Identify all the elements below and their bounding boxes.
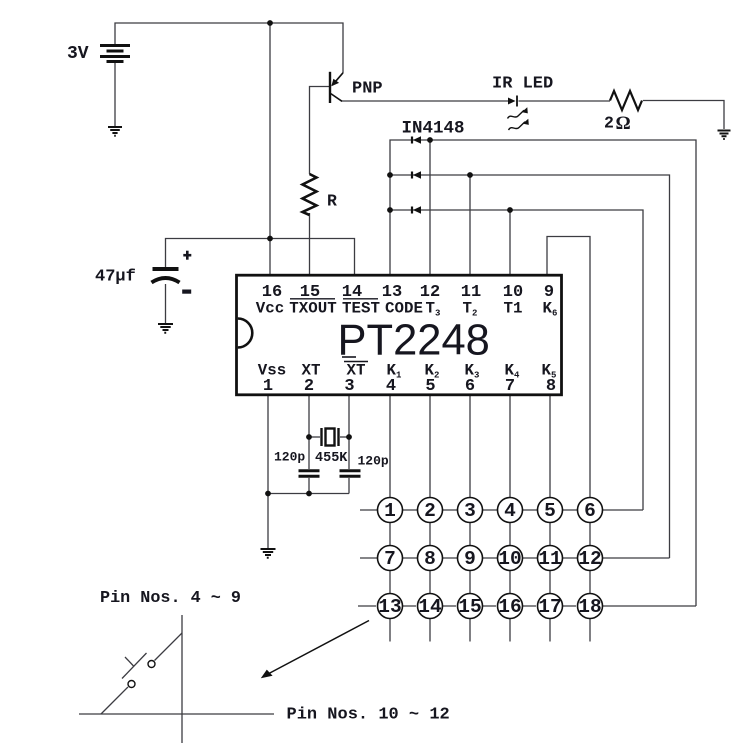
svg-text:13: 13	[378, 596, 401, 618]
svg-text:1: 1	[384, 500, 396, 522]
svg-text:6: 6	[584, 500, 596, 522]
svg-text:PT2248: PT2248	[338, 316, 490, 364]
svg-text:Vcc: Vcc	[256, 300, 284, 318]
svg-text:3V: 3V	[67, 44, 89, 64]
svg-text:2: 2	[604, 114, 614, 133]
svg-text:K6: K6	[543, 300, 558, 319]
svg-text:CODE: CODE	[385, 300, 423, 318]
svg-text:R: R	[327, 192, 337, 211]
svg-text:3: 3	[344, 377, 354, 396]
svg-text:9: 9	[464, 548, 476, 570]
svg-text:TXOUT: TXOUT	[289, 300, 337, 318]
svg-text:IR LED: IR LED	[492, 75, 553, 94]
svg-text:8: 8	[424, 548, 436, 570]
svg-text:2: 2	[424, 500, 436, 522]
svg-text:T1: T1	[504, 300, 523, 318]
svg-text:7: 7	[384, 548, 396, 570]
svg-text:6: 6	[465, 377, 475, 396]
svg-text:16: 16	[498, 596, 521, 618]
svg-text:Pin Nos. 4 ~ 9: Pin Nos. 4 ~ 9	[100, 589, 241, 608]
svg-text:5: 5	[425, 377, 435, 396]
svg-text:14: 14	[418, 596, 442, 618]
svg-text:120p: 120p	[358, 454, 389, 469]
svg-text:11: 11	[538, 548, 561, 570]
svg-text:4: 4	[504, 500, 516, 522]
svg-text:4: 4	[386, 377, 396, 396]
svg-text:PNP: PNP	[352, 80, 383, 99]
svg-text:12: 12	[578, 548, 601, 570]
svg-text:1: 1	[263, 377, 273, 396]
svg-text:3: 3	[464, 500, 476, 522]
svg-text:15: 15	[458, 596, 481, 618]
svg-text:5: 5	[544, 500, 556, 522]
svg-text:455K: 455K	[315, 451, 348, 466]
svg-text:IN4148: IN4148	[402, 119, 465, 139]
svg-text:18: 18	[578, 596, 601, 618]
svg-text:2: 2	[304, 377, 314, 396]
svg-text:47µf: 47µf	[95, 268, 136, 287]
svg-text:120p: 120p	[274, 450, 305, 465]
svg-text:TEST: TEST	[342, 300, 380, 318]
svg-text:7: 7	[505, 377, 515, 396]
svg-text:Pin Nos. 10 ~ 12: Pin Nos. 10 ~ 12	[287, 706, 450, 725]
svg-text:Ω: Ω	[616, 113, 631, 134]
svg-text:10: 10	[498, 548, 521, 570]
svg-text:17: 17	[538, 596, 561, 618]
svg-text:8: 8	[546, 377, 556, 396]
